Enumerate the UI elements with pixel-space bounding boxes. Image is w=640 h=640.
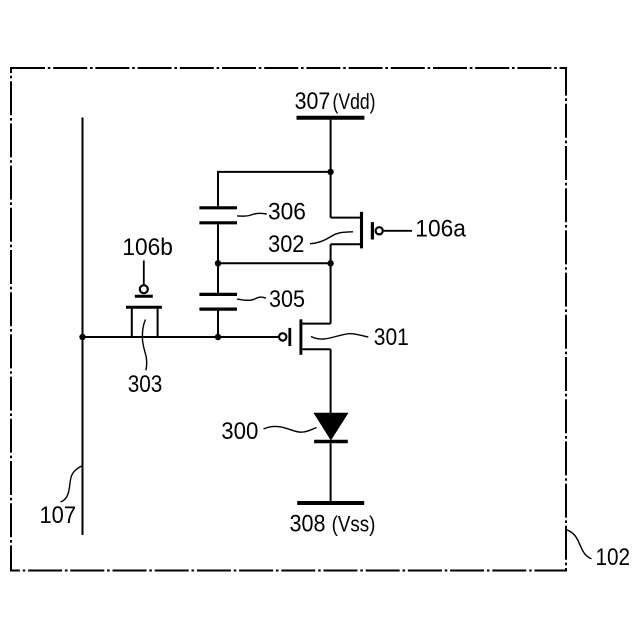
capacitor C306 bottom plate [199, 221, 237, 224]
transistor Q301 gate bubble [279, 333, 286, 340]
transistor Q303 gate bubble [140, 285, 148, 293]
wire: gate lead to 106a [384, 230, 412, 232]
transistor Q302 channel bar [360, 212, 363, 249]
power rail Vdd bar 307 [297, 116, 365, 120]
svg-text:300: 300 [221, 418, 258, 445]
wire: top capacitor branch horizontal [218, 171, 331, 173]
wire: Q302 source down to mid node and Q301 drain [330, 244, 332, 323]
svg-text:(Vss): (Vss) [332, 511, 376, 536]
wire: mid horizontal node [218, 262, 331, 264]
svg-text:302: 302 [268, 231, 304, 258]
leader from 306 to capacitor [237, 213, 267, 216]
wire: bottom horizontal node from line 107 to gate of 301 [83, 336, 279, 338]
transistor Q303 left lead [131, 309, 133, 337]
power rail Vss bar 308 [297, 501, 364, 505]
svg-text:303: 303 [128, 371, 163, 398]
junction dot mid-right [327, 260, 333, 266]
svg-text:306: 306 [268, 198, 306, 225]
leader from 303 to transistor [142, 320, 146, 371]
junction dot on line 107 [79, 334, 85, 340]
capacitor C306 top plate [199, 206, 237, 209]
capacitor C305 top plate [199, 293, 237, 296]
transistor Q303 gate plate [135, 295, 153, 298]
transistor Q302 gate plate [371, 222, 374, 239]
capacitor C305 bottom plate [199, 308, 237, 311]
transistor Q303 channel bar [126, 306, 162, 309]
wire: Q301 source down to diode [330, 349, 332, 413]
svg-text:305: 305 [269, 286, 305, 313]
junction dot at Vdd branch [327, 169, 333, 175]
transistor Q301 source wire [302, 348, 330, 350]
junction dot mid-left [215, 260, 221, 266]
transistor Q301 gate plate [288, 328, 291, 346]
leader from 302 to transistor [310, 232, 353, 244]
transistor Q303 right lead [157, 309, 159, 337]
svg-text:(Vdd): (Vdd) [333, 89, 376, 114]
wire: 106b terminal lead [143, 261, 145, 285]
wire: capacitor 306 to mid node [217, 224, 219, 292]
svg-text:107: 107 [40, 502, 77, 529]
leader from 102 to boundary [566, 529, 592, 558]
wire: down to capacitor 306 [217, 171, 219, 206]
leader from 301 to transistor [311, 334, 368, 339]
wire: vertical signal line 107 [82, 118, 84, 536]
wire: diode to Vss bar [330, 443, 332, 501]
transistor Q302 drain wire [331, 217, 360, 219]
diode D300 cathode bar [314, 440, 348, 444]
transistor Q301 drain wire [302, 323, 330, 325]
leader from 107 to line [61, 466, 83, 502]
svg-text:106b: 106b [122, 234, 172, 261]
wire: capacitor 305 to bottom node [217, 311, 219, 337]
svg-text:308: 308 [290, 510, 326, 537]
transistor Q301 channel bar [299, 319, 302, 355]
svg-text:102: 102 [596, 544, 631, 571]
svg-text:106a: 106a [415, 216, 466, 243]
dash-dot boundary box 102 [11, 68, 566, 571]
leader from 300 to diode [264, 426, 317, 432]
leader from 305 to capacitor [237, 297, 266, 300]
transistor Q302 gate bubble [376, 227, 383, 234]
svg-text:301: 301 [374, 324, 409, 351]
diode D300 anode triangle [313, 413, 348, 441]
wire: Vdd down to node [330, 120, 332, 218]
transistor Q302 source wire [331, 243, 360, 245]
svg-text:307: 307 [295, 88, 331, 115]
junction dot below capacitor 305 [215, 334, 221, 340]
